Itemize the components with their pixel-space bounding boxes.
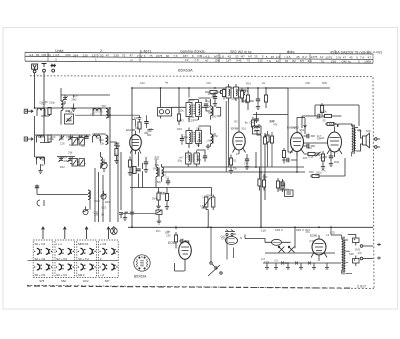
dial lamp bbox=[110, 226, 117, 234]
AGC cap C15 bbox=[213, 97, 217, 99]
svg-text:5: 5 bbox=[358, 60, 360, 64]
AGC line bbox=[162, 166, 305, 168]
V2 cathode cap C18 bbox=[245, 159, 249, 161]
aerial coil L8 bbox=[37, 157, 45, 164]
screen cap C19 bbox=[257, 128, 261, 130]
IF link cap C39 bbox=[180, 139, 184, 141]
V3 diode caps C20 bbox=[307, 134, 309, 138]
svg-text:2M2: 2M2 bbox=[355, 247, 361, 251]
svg-text:S44: S44 bbox=[315, 173, 320, 177]
AF take-off wire bbox=[121, 213, 156, 215]
aerial coil L5 bbox=[37, 135, 45, 142]
wire bus row1 bbox=[50, 108, 111, 222]
dial scale row 1 text bbox=[29, 53, 371, 60]
svg-text:L4: L4 bbox=[255, 129, 258, 133]
svg-text:C18: C18 bbox=[232, 97, 237, 101]
svg-text:470k: 470k bbox=[321, 109, 327, 113]
svg-text:S5: S5 bbox=[41, 134, 45, 138]
AGC extra resistor R34 bbox=[222, 90, 225, 97]
heater caps bbox=[265, 263, 329, 269]
tone resistor R33 bbox=[320, 106, 323, 113]
svg-text:4,4: 4,4 bbox=[308, 59, 313, 63]
IFT1 feed drop bbox=[188, 88, 190, 98]
Philips logo bbox=[134, 255, 150, 271]
svg-text:S16: S16 bbox=[241, 127, 246, 131]
wires IFT2 bbox=[189, 126, 211, 148]
waveband unit S4 (dashed box) bbox=[99, 240, 119, 278]
svg-text:S6 + O1: S6 + O1 bbox=[35, 273, 46, 277]
switch riser bbox=[210, 227, 212, 262]
svg-text:68k: 68k bbox=[84, 135, 89, 139]
svg-text:S62: S62 bbox=[61, 279, 66, 283]
svg-text:S23: S23 bbox=[101, 206, 106, 210]
svg-text:390: 390 bbox=[79, 134, 84, 138]
svg-text:B5X63A: B5X63A bbox=[134, 275, 147, 279]
svg-text:S2 + O4: S2 + O4 bbox=[35, 257, 46, 261]
svg-text:2M2: 2M2 bbox=[71, 98, 77, 102]
svg-text:C20: C20 bbox=[284, 261, 289, 265]
svg-text:C43: C43 bbox=[263, 175, 268, 179]
svg-text:8p: 8p bbox=[228, 85, 231, 89]
fuse lamp bbox=[265, 239, 291, 245]
svg-text:75: 75 bbox=[247, 59, 251, 63]
svg-text:12: 12 bbox=[276, 59, 280, 63]
tube V3 EABC80 bbox=[290, 128, 304, 156]
svg-text:S57: S57 bbox=[165, 230, 170, 234]
unit captions bbox=[39, 279, 110, 283]
svg-text:R40: R40 bbox=[65, 109, 70, 113]
mains text bbox=[240, 228, 304, 240]
svg-text:2a: 2a bbox=[262, 81, 265, 85]
svg-text:C25: C25 bbox=[330, 230, 335, 234]
trimmer C7 bbox=[58, 157, 63, 162]
svg-text:S5: S5 bbox=[322, 119, 326, 123]
svg-text:R14: R14 bbox=[114, 152, 119, 156]
waveband unit S3 (dashed box) bbox=[77, 240, 97, 278]
coil L6 bbox=[93, 135, 101, 142]
svg-text:C15: C15 bbox=[309, 155, 314, 159]
svg-text:OM: OM bbox=[342, 59, 347, 63]
svg-text:6: 6 bbox=[144, 54, 146, 58]
filter cap C36 bbox=[254, 119, 258, 121]
tone resistor R15 bbox=[325, 114, 332, 117]
decoupling cap C35 bbox=[125, 212, 134, 215]
svg-text:+ 2: + 2 bbox=[100, 273, 104, 277]
volume pot P1 bbox=[203, 197, 215, 208]
mains drop wire bbox=[245, 227, 295, 248]
svg-text:230: 230 bbox=[258, 59, 263, 63]
screen cap C14 bbox=[144, 162, 148, 164]
IF stop resistor R26 bbox=[263, 137, 266, 144]
svg-text:S29: S29 bbox=[366, 129, 371, 133]
wire row2 bbox=[35, 116, 60, 143]
svg-text:t + s: t + s bbox=[56, 242, 62, 246]
svg-text:220: 220 bbox=[303, 156, 308, 160]
svg-text:75: 75 bbox=[149, 54, 153, 58]
svg-text:100: 100 bbox=[307, 146, 312, 150]
svg-text:C31: C31 bbox=[134, 116, 139, 120]
svg-text:220: 220 bbox=[93, 109, 98, 113]
svg-text:68k: 68k bbox=[357, 128, 362, 132]
svg-text:2.917: 2.917 bbox=[357, 285, 366, 289]
svg-text:R26: R26 bbox=[264, 134, 269, 138]
ground right column bbox=[114, 159, 118, 164]
det out trimmer C37 bbox=[315, 152, 320, 157]
svg-text:82: 82 bbox=[166, 54, 170, 58]
svg-text:33k: 33k bbox=[317, 137, 322, 141]
svg-text:S2 + O1: S2 + O1 bbox=[56, 273, 67, 277]
AF line bbox=[162, 171, 306, 173]
resistor R2 bbox=[48, 135, 51, 142]
svg-text:OM: OM bbox=[215, 58, 220, 62]
loudspeaker bbox=[358, 130, 370, 151]
svg-text:C18: C18 bbox=[193, 118, 198, 122]
trimmer bank C5 bbox=[77, 136, 82, 141]
wire: antenna down-lead bbox=[34, 73, 36, 108]
svg-text:R49: R49 bbox=[105, 200, 110, 204]
svg-text:50: 50 bbox=[45, 100, 48, 104]
waveband unit S1 (dashed box) bbox=[33, 240, 53, 278]
svg-text:2M2: 2M2 bbox=[334, 160, 340, 164]
svg-text:45: 45 bbox=[271, 55, 275, 59]
pickup sockets bbox=[225, 230, 235, 236]
svg-text:2 W: 2 W bbox=[137, 54, 143, 58]
svg-text:52: 52 bbox=[100, 53, 104, 57]
mixer plate wire bbox=[131, 88, 133, 227]
tube V1 ECH81 bbox=[130, 131, 142, 155]
svg-text:C35: C35 bbox=[94, 210, 99, 214]
svg-text:C6: C6 bbox=[39, 100, 43, 104]
svg-text:230: 230 bbox=[114, 54, 119, 58]
svg-text:C29: C29 bbox=[264, 260, 269, 264]
dial scale table: bottom rule bbox=[25, 61, 373, 63]
wire bus row2 bbox=[60, 134, 106, 137]
svg-text:7,6: 7,6 bbox=[267, 59, 272, 63]
socket drop wires bbox=[227, 236, 234, 260]
cathode wires + ground bbox=[129, 157, 131, 171]
svg-text:R19: R19 bbox=[246, 82, 251, 86]
svg-text:OM: OM bbox=[41, 53, 46, 57]
svg-text:t 4,6: t 4,6 bbox=[53, 53, 59, 57]
HT bus wire bbox=[132, 87, 330, 89]
osc padder C16 bbox=[166, 181, 170, 183]
wire row1 bbox=[35, 108, 50, 116]
svg-text:47k: 47k bbox=[358, 251, 363, 255]
svg-text:C5: C5 bbox=[274, 258, 278, 262]
IF transformer IFT2 bbox=[186, 128, 202, 147]
IF transformer IFT3 bbox=[186, 151, 200, 167]
svg-text:68k: 68k bbox=[144, 131, 149, 135]
svg-text:S12: S12 bbox=[140, 81, 145, 85]
diode load R25 bbox=[304, 118, 307, 134]
svg-text:33k: 33k bbox=[100, 142, 105, 146]
screen pair R32 bbox=[270, 136, 273, 143]
svg-text:+ O2: + O2 bbox=[100, 242, 107, 246]
AF tube V5 triode bbox=[179, 240, 192, 271]
trimmer bank C4 bbox=[68, 136, 73, 141]
component value labels bbox=[38, 85, 371, 265]
output transformer T2 bbox=[352, 124, 358, 157]
svg-text:EF89: EF89 bbox=[231, 127, 239, 131]
svg-text:R10: R10 bbox=[99, 138, 104, 142]
svg-text:33k: 33k bbox=[232, 232, 237, 236]
svg-text:S67: S67 bbox=[105, 279, 110, 283]
decoupling cap C29 bbox=[256, 99, 260, 101]
osc section coil L9 bbox=[88, 190, 91, 200]
AF pair R29 bbox=[276, 181, 279, 188]
osc grid wires bbox=[139, 152, 143, 188]
coupling cap C22 bbox=[287, 158, 289, 162]
svg-text:4a: 4a bbox=[165, 81, 168, 85]
aerial coil L1 bbox=[37, 108, 45, 116]
osc coil L13 bbox=[156, 167, 164, 177]
svg-text:m kc: m kc bbox=[287, 50, 295, 54]
V1 grid resistor R5 bbox=[138, 122, 141, 129]
svg-text:L41: L41 bbox=[243, 89, 248, 93]
svg-text:S18: S18 bbox=[270, 119, 275, 123]
cap C11 bbox=[37, 200, 44, 206]
svg-text:500p: 500p bbox=[94, 199, 100, 203]
svg-text:S52: S52 bbox=[299, 128, 304, 132]
band coil L14 bbox=[101, 152, 103, 169]
svg-text:C45: C45 bbox=[196, 126, 201, 130]
svg-text:C1: C1 bbox=[316, 116, 320, 120]
svg-text:25n: 25n bbox=[156, 229, 161, 233]
top margin specks bbox=[140, 81, 327, 86]
V1 grid cap C13 bbox=[138, 115, 142, 133]
svg-text:75: 75 bbox=[321, 59, 325, 63]
svg-text:33k: 33k bbox=[233, 166, 238, 170]
svg-text:C40: C40 bbox=[58, 155, 63, 159]
svg-text:7,6: 7,6 bbox=[173, 54, 178, 58]
V5 lower wire bbox=[175, 263, 185, 271]
svg-text:68k: 68k bbox=[208, 111, 213, 115]
svg-text:50: 50 bbox=[279, 188, 282, 192]
tone wires bbox=[302, 105, 359, 128]
det caps C17 bbox=[241, 93, 245, 95]
bottom-left: wave-band coil unit boxes bbox=[28, 227, 119, 283]
padder box C30 bbox=[72, 138, 77, 146]
svg-text:kc: kc bbox=[348, 60, 352, 64]
AGC resistor R8 bbox=[210, 90, 217, 93]
IF coupling coil L10 (boxed) bbox=[158, 88, 172, 119]
osc coil wires bbox=[156, 160, 162, 188]
osc switch S1c bbox=[101, 191, 107, 199]
dial scale table: top rule bbox=[25, 52, 373, 54]
svg-text:C61: C61 bbox=[206, 81, 211, 85]
svg-text:125 V: 125 V bbox=[275, 228, 283, 232]
svg-text:1375: 1375 bbox=[156, 54, 163, 58]
svg-text:S2 + O1: S2 + O1 bbox=[35, 242, 46, 246]
svg-text:L56: L56 bbox=[207, 138, 212, 142]
dial scale row 2 text bbox=[55, 58, 371, 64]
V5 grid resistor R19 bbox=[174, 235, 177, 242]
footnote text row (dashes) bbox=[27, 286, 350, 288]
trimmer C1 bbox=[62, 96, 67, 101]
svg-text:EC92: EC92 bbox=[168, 241, 176, 245]
svg-text:L6: L6 bbox=[149, 127, 152, 131]
svg-text:390: 390 bbox=[135, 126, 140, 130]
svg-text:M7: M7 bbox=[300, 59, 305, 63]
svg-text:R25: R25 bbox=[322, 81, 327, 85]
IF coil L11 bbox=[211, 99, 214, 120]
svg-text:S2 + O4: S2 + O4 bbox=[56, 257, 67, 261]
svg-text:L17: L17 bbox=[261, 257, 266, 261]
coil L4 with core bbox=[106, 109, 110, 119]
svg-text:S54: S54 bbox=[152, 197, 157, 201]
svg-text:S26: S26 bbox=[69, 143, 74, 147]
V1 cap C12 bbox=[144, 122, 148, 124]
tube V2 EF89 bbox=[233, 128, 246, 154]
svg-text:47: 47 bbox=[106, 54, 110, 58]
svg-text:230: 230 bbox=[331, 59, 336, 63]
ground row3 bbox=[38, 169, 42, 174]
svg-text:25n: 25n bbox=[74, 93, 79, 97]
svg-text:C26: C26 bbox=[60, 141, 65, 145]
svg-text:L10: L10 bbox=[162, 173, 167, 177]
svg-text:C3: C3 bbox=[279, 180, 283, 184]
svg-text:L9: L9 bbox=[326, 233, 329, 237]
resistor R4 bbox=[115, 149, 118, 156]
cathode resistor R6 bbox=[128, 160, 131, 167]
coil L3 bbox=[93, 109, 101, 116]
svg-text:MF5 O1: MF5 O1 bbox=[78, 242, 89, 246]
V2 cathode resistor R11 bbox=[229, 158, 232, 165]
svg-text:33k: 33k bbox=[68, 151, 73, 155]
feed wires bbox=[248, 88, 258, 110]
svg-text:12: 12 bbox=[185, 58, 189, 62]
svg-text:47k: 47k bbox=[273, 123, 278, 127]
svg-text:2 W: 2 W bbox=[336, 55, 342, 59]
IFT2 ground bbox=[206, 144, 210, 149]
svg-text:S6 + TU: S6 + TU bbox=[78, 257, 89, 261]
waveband unit S2 (dashed box) bbox=[55, 240, 75, 278]
svg-text:500p: 500p bbox=[64, 159, 70, 163]
svg-text:S9: S9 bbox=[196, 143, 200, 147]
svg-text:47k: 47k bbox=[321, 169, 326, 173]
svg-text:7,6: 7,6 bbox=[194, 58, 199, 62]
svg-text:M2 2: M2 2 bbox=[78, 273, 85, 277]
V1 wires bbox=[147, 115, 154, 131]
padder box C33 bbox=[79, 159, 84, 167]
svg-text:10k: 10k bbox=[179, 108, 184, 112]
rail junction dots bbox=[131, 226, 332, 228]
svg-text:R4: R4 bbox=[82, 144, 86, 148]
svg-text:m kc: m kc bbox=[244, 50, 252, 54]
svg-text:S57: S57 bbox=[102, 104, 107, 108]
V3 plate riser bbox=[297, 118, 305, 129]
tube V4 EL84 bbox=[327, 127, 342, 158]
padder coil L2 bbox=[61, 101, 63, 111]
coupling box bbox=[285, 190, 294, 197]
chassis rail bbox=[128, 226, 373, 228]
svg-text:1n: 1n bbox=[236, 152, 239, 156]
svg-text:100: 100 bbox=[197, 139, 202, 143]
svg-text:100: 100 bbox=[254, 117, 259, 121]
svg-text:4n7: 4n7 bbox=[293, 126, 298, 130]
svg-text:C45: C45 bbox=[244, 162, 249, 166]
cap C6 bbox=[84, 137, 88, 139]
svg-text:110: 110 bbox=[261, 229, 266, 233]
unit arrows bbox=[42, 227, 110, 239]
osc resistor R10 bbox=[157, 193, 160, 200]
svg-text:R2: R2 bbox=[234, 119, 238, 123]
svg-text:100: 100 bbox=[207, 105, 212, 109]
svg-text:m: m bbox=[130, 58, 133, 62]
V1 plate link bbox=[132, 120, 136, 127]
svg-text:S58: S58 bbox=[309, 170, 314, 174]
svg-text:33k: 33k bbox=[40, 163, 45, 167]
AGC wires bbox=[205, 92, 232, 102]
output terminals bbox=[360, 243, 381, 260]
svg-text:1: 1 bbox=[95, 58, 97, 62]
AF feed verticals bbox=[256, 152, 297, 228]
svg-text:82: 82 bbox=[47, 53, 51, 57]
svg-text:S75: S75 bbox=[39, 279, 44, 283]
voltage selector bbox=[265, 246, 335, 253]
detector top coil unit bbox=[226, 84, 239, 101]
screen pair R31 bbox=[266, 135, 269, 142]
pot wires bbox=[206, 195, 213, 228]
svg-text:L33: L33 bbox=[161, 192, 166, 196]
svg-text:S4: S4 bbox=[64, 155, 68, 159]
cap C10 bbox=[35, 186, 39, 188]
switch S1b bbox=[83, 206, 89, 214]
svg-text:230: 230 bbox=[65, 53, 70, 57]
trimmer C8 bbox=[67, 157, 72, 162]
svg-text:B5X63A: B5X63A bbox=[178, 68, 193, 73]
mains switch S2 bbox=[208, 262, 222, 276]
svg-text:500p: 500p bbox=[319, 115, 325, 119]
svg-text:C1: C1 bbox=[94, 133, 98, 137]
svg-text:S51: S51 bbox=[190, 98, 195, 102]
svg-text:8p: 8p bbox=[245, 121, 248, 125]
svg-text:S48: S48 bbox=[153, 167, 158, 171]
osc wires low bbox=[130, 178, 212, 205]
V2 plate riser bbox=[238, 96, 240, 128]
antenna socket A bbox=[32, 64, 38, 73]
resistor R24 bbox=[240, 91, 243, 98]
trimmer bank C3 bbox=[59, 136, 64, 141]
grid resistor R16 bbox=[327, 122, 334, 125]
wire row3 bbox=[35, 135, 45, 169]
svg-text:45 BA SA8208 78 (valvole V+W: 45 BA SA8208 78 (valvole V+W) bbox=[330, 50, 382, 54]
svg-text:4n7: 4n7 bbox=[179, 156, 184, 160]
svg-text:82: 82 bbox=[292, 59, 296, 63]
cap C9 bbox=[114, 144, 118, 146]
filter cap C28 bbox=[353, 256, 360, 267]
svg-text:47k: 47k bbox=[305, 230, 310, 234]
osc resistor R23 bbox=[165, 194, 168, 201]
rectifier tube V6 EZ80 bbox=[311, 235, 327, 261]
svg-text:C66: C66 bbox=[305, 81, 310, 85]
tone pot P2 bbox=[156, 210, 162, 219]
svg-text:4,4: 4,4 bbox=[29, 53, 34, 57]
V5 cap C25 bbox=[181, 239, 183, 243]
svg-text:R6: R6 bbox=[207, 100, 211, 104]
switch shaft line bbox=[28, 259, 119, 261]
coil L7 bbox=[106, 135, 109, 145]
IFT3 caps bbox=[203, 156, 207, 158]
wire osc top bbox=[61, 88, 110, 125]
wire: terminal 2 down-lead bbox=[43, 72, 45, 135]
chassis boundary top (dashed) bbox=[30, 75, 373, 78]
wire row3b bbox=[57, 157, 86, 164]
svg-text:220: 220 bbox=[211, 95, 216, 99]
svg-text:L57: L57 bbox=[197, 158, 202, 162]
osc grid cap C34 bbox=[136, 169, 140, 171]
svg-text:82: 82 bbox=[36, 53, 40, 57]
